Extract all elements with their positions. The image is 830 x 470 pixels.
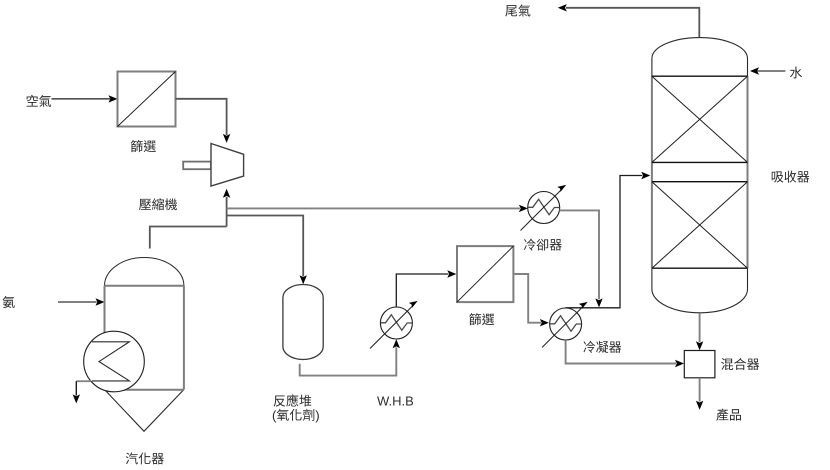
compressor K1	[183, 144, 243, 187]
label ammonia	[3, 296, 15, 308]
wire tail gas	[558, 4, 700, 37]
wire filter1 to compressor	[176, 99, 231, 143]
label absorber	[772, 171, 809, 183]
cooler	[521, 185, 567, 231]
label vaporizer	[126, 452, 164, 464]
label air	[27, 95, 52, 107]
wire condenser top to absorber inlet	[566, 172, 651, 308]
vaporizer vessel E1	[105, 258, 184, 432]
wire WHB outlet to filter2	[396, 270, 456, 306]
heat exchanger W.H.B	[370, 301, 418, 349]
wire water inlet	[750, 67, 785, 74]
label compressor	[139, 198, 177, 210]
wire compressor to cooler	[227, 205, 528, 212]
label mixer	[721, 358, 759, 370]
label sieve1	[131, 140, 156, 152]
filter F1 (sieve)	[118, 72, 176, 127]
mixer M1	[684, 351, 715, 378]
wire ammonia inlet	[58, 298, 105, 305]
wire condenser to mixer	[566, 340, 684, 367]
label oxidizer	[273, 409, 319, 423]
condenser	[542, 302, 588, 348]
wire reactor outlet to WHB	[300, 339, 400, 375]
wire compressor to reactor	[227, 216, 307, 285]
wire into compressor bottom	[223, 189, 230, 227]
wire cooler outlet down	[559, 210, 602, 307]
wire air inlet	[52, 95, 118, 102]
wire compressor to vaporizer	[150, 227, 227, 249]
wire filter2 to condenser	[513, 274, 549, 326]
filter F2 (sieve)	[457, 246, 513, 302]
label condenser	[583, 341, 621, 353]
label tailgas	[505, 5, 530, 17]
svg-text:W.H.B: W.H.B	[377, 394, 414, 409]
vaporizer heat circle	[84, 331, 145, 392]
label product	[716, 408, 741, 420]
reactor R1	[283, 285, 323, 360]
label cooler	[524, 239, 562, 251]
wire product out	[696, 378, 703, 410]
label sieve2	[469, 313, 494, 325]
label water	[790, 67, 802, 79]
absorber column T1	[652, 38, 748, 313]
wire absorber bottom to mixer	[696, 313, 703, 350]
wire vaporizer outlet	[73, 381, 91, 403]
label reactor	[274, 394, 312, 406]
